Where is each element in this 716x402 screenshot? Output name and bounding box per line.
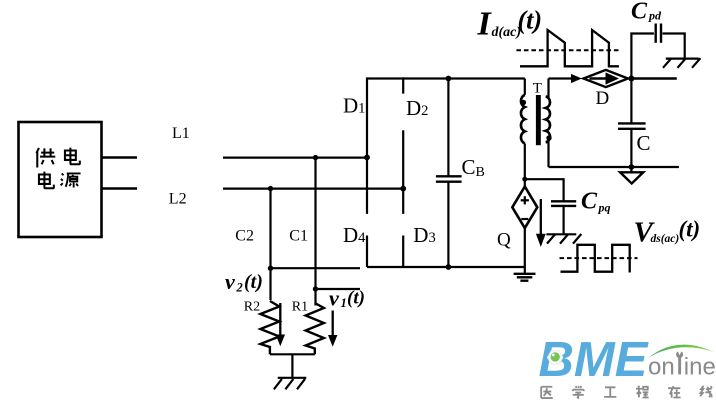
svg-text:pd: pd: [648, 9, 662, 23]
svg-text:CB: CB: [462, 155, 485, 180]
svg-text:v: v: [329, 286, 339, 311]
svg-text:1: 1: [341, 296, 347, 310]
transformer primary phase dot: [521, 100, 526, 105]
svg-text:ds(ac): ds(ac): [651, 233, 680, 245]
glyph 电 (line1): [65, 148, 80, 165]
wire v1 tap horizontal: [316, 288, 361, 290]
svg-text:C1: C1: [289, 228, 308, 245]
capacitor Cpd branch: [631, 24, 684, 79]
waveform Id dashed axis: [516, 49, 619, 51]
wire v2 tap horizontal: [271, 267, 361, 269]
svg-text:v: v: [225, 269, 235, 294]
transformer T secondary winding: [546, 79, 550, 168]
node L2-C2 junction: [268, 186, 273, 191]
waveform Vds trace: [561, 245, 630, 273]
svg-text:L1: L1: [172, 125, 190, 142]
node top rail CB junction: [446, 76, 452, 82]
svg-text:C: C: [637, 131, 651, 155]
diode D1 branch wire (left vertical upper): [366, 77, 368, 214]
glyph 线: [700, 386, 712, 397]
svg-text:T: T: [533, 80, 542, 96]
svg-text:pq: pq: [598, 201, 611, 215]
svg-text:R1: R1: [292, 300, 308, 315]
ground earth at Q: [514, 274, 536, 281]
text 医学工程在线 (drawn glyphs): [541, 386, 712, 398]
plus sign in Q: [521, 196, 529, 204]
svg-text:C2: C2: [235, 228, 254, 245]
logo hexagon in B: [548, 351, 563, 364]
svg-text:R2: R2: [244, 300, 260, 315]
wire C2 branch vertical: [269, 189, 271, 300]
node bottom rail CB junction: [446, 264, 452, 270]
node C bottom junction: [629, 164, 635, 170]
diode D2 branch wires (middle vertical upper with gap): [402, 77, 404, 214]
svg-text:I: I: [477, 6, 493, 43]
svg-text:D2: D2: [406, 96, 428, 120]
switch Q diamond source: [512, 187, 537, 229]
node Cpq tap junction: [522, 177, 527, 182]
svg-text:D: D: [596, 88, 610, 109]
svg-text:D4: D4: [343, 223, 366, 247]
wire secondary to diode: [549, 77, 573, 79]
diode D inner arrow: [590, 72, 620, 84]
glyph 在: [668, 386, 680, 398]
wire L1 line: [223, 157, 367, 159]
svg-text:on: on: [648, 353, 675, 380]
wire ground stem: [291, 354, 293, 378]
svg-text:(t): (t): [518, 6, 543, 35]
diode D diamond body: [584, 70, 629, 87]
wire Q to ground: [524, 228, 526, 273]
wire L2 line: [223, 188, 403, 190]
node L2-bridge junction: [400, 186, 406, 192]
ground Cpd (hatched): [663, 58, 700, 68]
minus sign in Q: [521, 218, 528, 220]
wire primary to Q: [524, 144, 526, 187]
svg-text:C: C: [581, 189, 598, 215]
svg-text:2: 2: [236, 281, 243, 295]
svg-text:(t): (t): [679, 217, 701, 242]
glyph 学: [573, 386, 584, 398]
waveform Vds dashed axis: [560, 257, 638, 259]
svg-text:D1: D1: [343, 94, 365, 118]
arrow v1: [328, 311, 337, 347]
node diode output junction: [628, 76, 634, 82]
waveform Id trace: [520, 30, 619, 66]
glyph 工: [604, 387, 616, 397]
resistor R1: [306, 303, 324, 354]
wire divider bottom: [270, 353, 315, 355]
transformer T primary winding: [521, 79, 525, 144]
wire Cpq tap: [525, 179, 564, 201]
wire L1 stub from supply: [102, 156, 138, 158]
power supply box: [19, 122, 102, 237]
ground triangle at C: [620, 172, 643, 183]
capacitor CB: [436, 79, 462, 268]
svg-text:(t): (t): [347, 288, 365, 309]
svg-text:C: C: [631, 0, 648, 25]
glyph 医: [541, 387, 553, 398]
glyph 电 (line2): [39, 172, 54, 189]
wire L2 stub from supply: [102, 187, 138, 189]
logo wrench: [676, 349, 683, 375]
diode D3 branch wire (middle vertical lower): [402, 236, 404, 268]
resistor R2: [260, 301, 279, 354]
ground Cpq (hatched): [546, 234, 581, 244]
capacitor C: [618, 79, 646, 173]
glyph 供: [36, 148, 55, 168]
capacitor Cpq: [551, 201, 576, 233]
logo green ball: [551, 352, 560, 361]
glyph 程: [636, 386, 649, 398]
node C2-R2 junction: [268, 266, 273, 271]
svg-text:(t): (t): [244, 271, 263, 293]
arrow Q current: [536, 199, 546, 247]
arrow on diode wire: [571, 74, 582, 83]
svg-text:D3: D3: [413, 223, 435, 247]
arrow v2: [276, 303, 285, 346]
svg-text:L2: L2: [169, 190, 187, 207]
logo swoosh: [648, 345, 714, 358]
bridge top rail wire: [367, 77, 525, 79]
diode D4 branch wire (left vertical lower): [366, 236, 368, 268]
text 供电电源 in supply box (drawn glyphs): [36, 148, 80, 189]
node C1-R1 junction: [313, 286, 318, 291]
glyph 源: [61, 173, 81, 187]
svg-text:Q: Q: [497, 230, 511, 251]
ground divider (hatched): [274, 378, 306, 390]
transformer secondary phase dot: [546, 135, 551, 140]
wire C1 branch vertical: [314, 158, 316, 306]
node L1-bridge junction: [364, 155, 370, 161]
bridge bottom rail wire: [367, 266, 525, 268]
transformer core: [536, 95, 541, 145]
wire output rail right: [631, 77, 676, 79]
svg-text:ine: ine: [684, 353, 716, 380]
node L1-C1 junction: [313, 155, 318, 160]
wire secondary bottom rail: [549, 166, 679, 168]
